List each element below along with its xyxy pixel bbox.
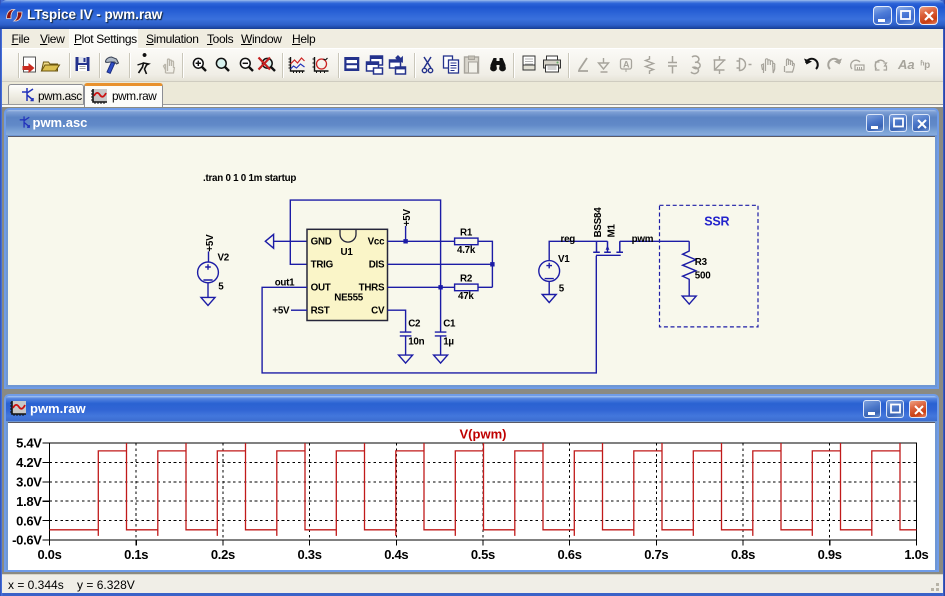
wire (R2 right) (478, 286, 492, 288)
wire (207, 283, 209, 298)
port flag (GND pin) (265, 234, 273, 248)
svg-text:5.4V: 5.4V (16, 436, 42, 451)
wire (DIS) (388, 263, 493, 265)
svg-text:SSR: SSR (704, 214, 729, 228)
ground (V2) (201, 297, 215, 305)
ground (C2) (399, 355, 413, 363)
wire (548, 281, 550, 294)
svg-text:47k: 47k (458, 291, 474, 302)
svg-text:0.6s: 0.6s (558, 547, 582, 562)
transistor M1 BSS84 (593, 207, 623, 255)
wire (208, 251, 210, 262)
svg-text:4.2V: 4.2V (16, 455, 42, 470)
wire (405, 226, 407, 241)
SSR dashed box (660, 205, 759, 327)
svg-text:0.2s: 0.2s (211, 547, 235, 562)
wire (CV to C2) (388, 310, 406, 332)
svg-text:BSS84: BSS84 (593, 207, 604, 238)
svg-text:GND: GND (311, 237, 332, 248)
wire (THRS) (388, 286, 455, 288)
svg-text:0.4s: 0.4s (384, 547, 408, 562)
resistor R3 (683, 241, 712, 296)
svg-text:R3: R3 (695, 257, 708, 268)
svg-text:0.3s: 0.3s (298, 547, 322, 562)
ground (V1) (542, 295, 556, 303)
svg-text:R2: R2 (460, 274, 473, 285)
svg-text:C1: C1 (443, 318, 456, 329)
svg-text:V(pwm): V(pwm) (460, 427, 507, 442)
svg-text:4.7k: 4.7k (457, 245, 476, 256)
svg-text:Vcc: Vcc (368, 237, 385, 248)
svg-text:+5V: +5V (205, 234, 216, 252)
svg-text:0.7s: 0.7s (644, 547, 668, 562)
svg-text:0.9s: 0.9s (818, 547, 842, 562)
junction (Vcc/+5V) (403, 239, 407, 243)
junction (THRS/C1) (438, 285, 442, 289)
wire (440, 336, 442, 355)
svg-text:U1: U1 (341, 247, 354, 258)
svg-text:Aa: Aa (897, 57, 915, 72)
svg-text:reg: reg (561, 234, 576, 245)
svg-text:C2: C2 (408, 318, 421, 329)
svg-text:+5V: +5V (402, 209, 413, 227)
ground (C1) (434, 355, 448, 363)
resistor R1 (455, 228, 478, 257)
svg-text:-0.6V: -0.6V (12, 533, 42, 548)
resistor R2 (455, 274, 478, 303)
svg-text:5: 5 (218, 281, 224, 292)
svg-text:0.0s: 0.0s (37, 547, 61, 562)
svg-text:RST: RST (311, 305, 330, 316)
svg-text:A: A (623, 60, 630, 70)
svg-text:DIS: DIS (369, 260, 385, 271)
wire (V1 top / reg) (549, 241, 607, 260)
voltage source V1 (539, 254, 570, 295)
svg-text:10n: 10n (408, 337, 424, 348)
ground (R3) (682, 296, 696, 304)
svg-text:0.8s: 0.8s (731, 547, 755, 562)
svg-text:V1: V1 (558, 254, 570, 265)
wire (drain to pwm) (620, 240, 689, 242)
wire (OUT to gate) (262, 256, 596, 373)
op-amp/timer U1 NE555 (307, 229, 388, 320)
svg-text:OUT: OUT (311, 283, 331, 294)
wire (R1 right, down to DIS/R2) (478, 241, 492, 287)
junction (DIS) (490, 262, 494, 266)
svg-text:R1: R1 (460, 228, 473, 239)
svg-text:1.8V: 1.8V (16, 494, 42, 509)
svg-text:M1: M1 (607, 223, 618, 237)
svg-text:0.1s: 0.1s (124, 547, 148, 562)
svg-text:V2: V2 (218, 253, 230, 264)
svg-text:500: 500 (695, 271, 711, 282)
capacitor C1 (435, 318, 456, 355)
svg-text:5: 5 (559, 284, 565, 295)
svg-text:CV: CV (371, 305, 385, 316)
svg-text:1.0s: 1.0s (904, 547, 928, 562)
wire (Vcc) (388, 240, 455, 242)
svg-text:+5V: +5V (272, 305, 290, 316)
wire (405, 336, 407, 355)
svg-text:NE555: NE555 (334, 293, 364, 304)
svg-text:1µ: 1µ (443, 337, 454, 348)
svg-text:0.5s: 0.5s (471, 547, 495, 562)
wire (291, 309, 307, 311)
wire (TRIG to THRS loop) (290, 200, 440, 332)
svg-text:ʱp: ʱp (921, 60, 931, 71)
svg-text:TRIG: TRIG (311, 260, 334, 271)
svg-text:0.6V: 0.6V (16, 513, 42, 528)
svg-text:3.0V: 3.0V (16, 475, 42, 490)
svg-text:pwm: pwm (632, 234, 654, 245)
voltage source V2 (198, 253, 230, 293)
svg-text:.tran 0 1 0 1m startup: .tran 0 1 0 1m startup (203, 173, 296, 184)
capacitor C2 (400, 318, 425, 355)
wire (274, 240, 307, 242)
